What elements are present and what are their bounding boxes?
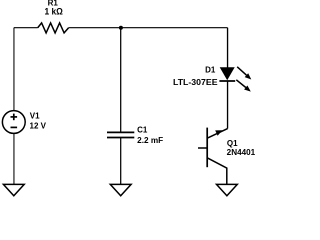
svg-text:1 kΩ: 1 kΩ xyxy=(45,7,63,17)
svg-text:Q1: Q1 xyxy=(227,139,238,148)
svg-text:C1: C1 xyxy=(137,126,148,135)
svg-text:V1: V1 xyxy=(30,112,40,121)
svg-text:D1: D1 xyxy=(205,66,216,75)
svg-text:2.2 mF: 2.2 mF xyxy=(137,136,163,145)
svg-text:12 V: 12 V xyxy=(30,122,47,131)
svg-text:2N4401: 2N4401 xyxy=(227,148,256,157)
svg-text:LTL-307EE: LTL-307EE xyxy=(173,78,218,87)
